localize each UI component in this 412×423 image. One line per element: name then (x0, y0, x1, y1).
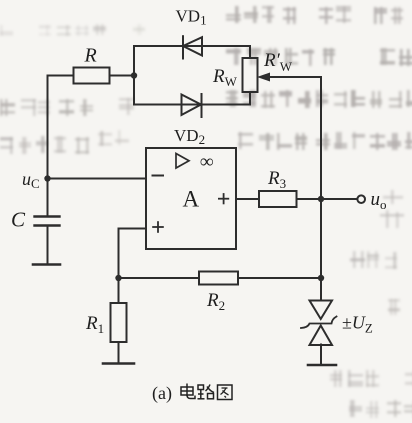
node: R2 / zener junction (318, 275, 324, 281)
output terminal circle (357, 195, 365, 203)
ground under capacitor (33, 263, 60, 266)
wire: top-left horizontal to resistor R (48, 75, 73, 77)
zener pair ±UZ (301, 301, 337, 346)
diode VD1 (183, 36, 202, 58)
resistor R3 (259, 191, 297, 207)
node u_C junction (44, 175, 50, 181)
capacitor C (35, 217, 60, 226)
wire: output node to terminal (321, 198, 357, 200)
wire: top diode branch (134, 45, 250, 47)
node: R1/R2 junction (115, 275, 121, 281)
potentiometer RW (243, 58, 258, 92)
ground under zeners (308, 364, 336, 367)
wire: bottom diode branch (134, 104, 250, 106)
svg-text:R: R (84, 45, 97, 67)
wire: op-amp output to R3 (236, 198, 259, 200)
svg-text:A: A (183, 187, 200, 212)
resistor R1 (111, 303, 127, 342)
wire: R3 to output node (297, 198, 322, 200)
wire: inverting input from u_C node (48, 178, 147, 180)
wire: right rail from wiper down to output node and zener (320, 77, 322, 300)
wire: capacitor to ground (47, 226, 49, 265)
wire: R to diode junction (110, 75, 135, 77)
wire: left rail from R corner down through u_C node to capacitor (47, 76, 49, 217)
wire: drop to RW top (249, 46, 251, 58)
svg-text:(a): (a) (152, 383, 172, 404)
caption CJK: dian (181, 384, 195, 399)
svg-text:C: C (11, 208, 26, 232)
op-amp minus input marker (152, 175, 165, 177)
resistor R (74, 68, 110, 84)
op-amp triangle glyph (176, 154, 189, 169)
wire: R2 to right rail (238, 277, 321, 279)
wire: vertical connector between diode branches (133, 46, 135, 105)
op-amp internal markers (152, 154, 230, 233)
wire: feedback line to R2 (119, 277, 200, 279)
wire: RW bottom to lower branch (249, 92, 251, 105)
caption CJK: tu (218, 385, 233, 400)
caption CJK: lu (198, 385, 215, 399)
resistor R2 (199, 272, 238, 285)
wire: R1 to ground (118, 342, 120, 363)
node: R / diode junction (131, 72, 137, 78)
diode VD2 (182, 94, 202, 117)
op-amp plus input marker (152, 221, 164, 233)
wire: non-inverting input (119, 228, 147, 230)
ground under R1 (103, 362, 134, 365)
wiper wire of RW with arrow (257, 73, 321, 82)
svg-text:∞: ∞ (200, 152, 214, 173)
node: output junction (318, 196, 324, 202)
op-amp U1 box (146, 148, 236, 249)
wire: zener to ground (320, 345, 322, 365)
op-amp output plus marker (218, 193, 229, 204)
